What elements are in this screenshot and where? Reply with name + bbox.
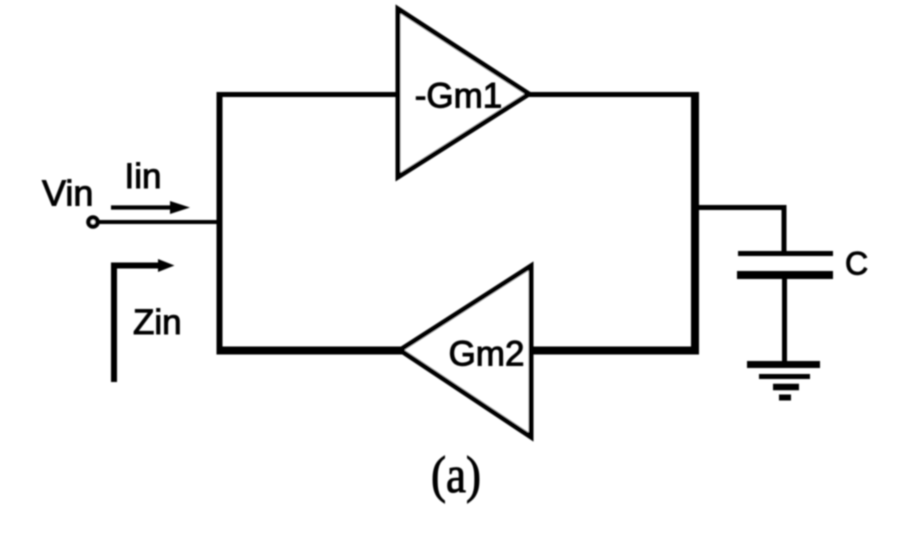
svg-text:Gm2: Gm2 bbox=[449, 335, 525, 374]
svg-text:(a): (a) bbox=[431, 447, 481, 504]
svg-text:Iin: Iin bbox=[125, 157, 162, 196]
svg-text:C: C bbox=[845, 246, 868, 282]
svg-text:Zin: Zin bbox=[133, 303, 182, 342]
svg-text:-Gm1: -Gm1 bbox=[415, 77, 503, 116]
svg-text:Vin: Vin bbox=[42, 173, 93, 214]
